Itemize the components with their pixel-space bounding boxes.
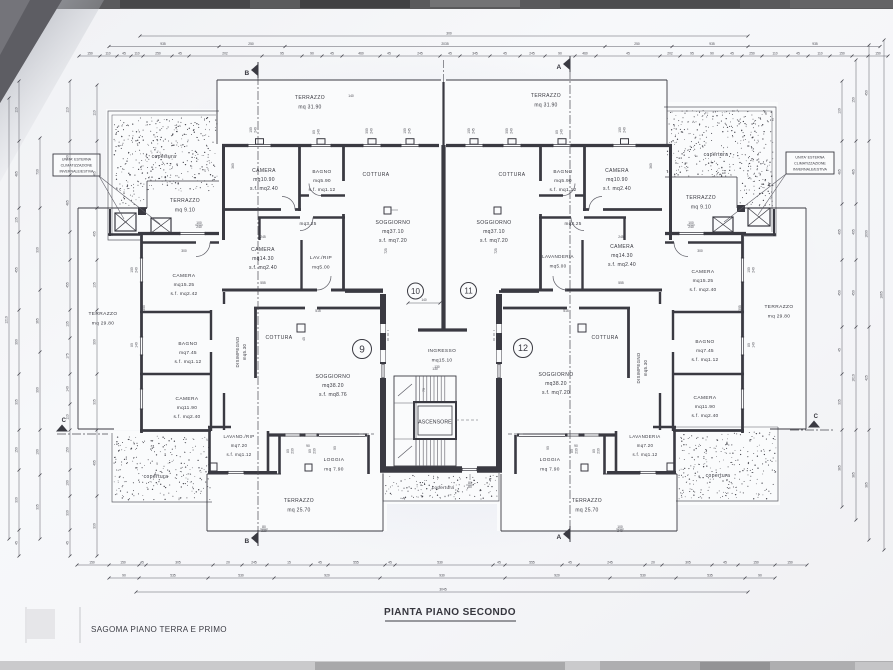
svg-text:150: 150 [120,561,126,565]
apartment number 12 [514,339,533,358]
wall camera/bagno divider (unit10) [298,147,301,211]
copertura stipple bottom-right [679,432,777,500]
svg-text:45: 45 [122,52,126,56]
svg-text:mq 25.70: mq 25.70 [575,508,598,514]
svg-text:CAMERA: CAMERA [173,273,196,279]
left dim line 4 [69,81,71,556]
stair treads lower flight [415,439,417,466]
svg-text:935: 935 [709,42,715,46]
section line C right [790,429,834,431]
svg-text:INGRESSO: INGRESSO [428,348,457,354]
svg-text:240: 240 [688,225,694,229]
svg-text:335: 335 [93,399,97,405]
svg-text:535: 535 [170,574,176,578]
svg-text:mq38.20: mq38.20 [545,381,567,387]
openings unit12 bottom [640,470,656,475]
svg-text:B: B [245,70,250,77]
staircase outline [394,376,456,466]
svg-text:460: 460 [582,52,588,56]
heater symbol loggia right [581,464,588,471]
right dim line 4 [883,40,885,550]
svg-text:11: 11 [464,286,473,295]
left exterior wall upper [222,144,225,240]
loggia walls right [603,435,606,474]
svg-text:80: 80 [286,449,290,453]
scanner corner wedge [0,0,104,182]
svg-text:725: 725 [384,248,388,254]
right wing east wall [741,232,744,433]
ac enclosure right [773,209,775,236]
svg-text:15: 15 [287,561,291,565]
lavanderia protrusion right [673,426,676,474]
svg-text:135: 135 [15,217,19,223]
svg-text:COTTURA: COTTURA [266,335,293,341]
unit9 corridor wall [223,292,225,304]
svg-text:s.f. mq1.12: s.f. mq1.12 [632,452,657,457]
svg-text:B: B [245,538,250,545]
svg-text:12: 12 [518,343,528,353]
heater symbol loggia left [305,464,312,471]
svg-text:330: 330 [93,523,97,529]
svg-text:515: 515 [315,309,321,313]
svg-text:mq 29.80: mq 29.80 [768,314,790,320]
svg-text:LAVANDERIA: LAVANDERIA [629,434,660,439]
svg-text:s.f. mq7.20: s.f. mq7.20 [542,390,570,396]
scanner grey band top [0,0,893,9]
svg-text:1610: 1610 [852,374,856,382]
terrazzo 9.10 left outline [147,180,219,182]
copertura stipple top-left [114,117,218,209]
svg-text:45: 45 [448,52,452,56]
svg-text:45: 45 [568,561,572,565]
svg-text:mq37.10: mq37.10 [382,229,404,235]
svg-text:250: 250 [749,52,755,56]
top dim line 1 [140,35,748,37]
unit12 wing dividers [672,311,744,313]
svg-text:DISIMPEGNO: DISIMPEGNO [235,336,240,367]
svg-text:80: 80 [747,343,751,347]
svg-text:DISIMPEGNO: DISIMPEGNO [636,352,641,383]
terrazzo 31.90 left outline [217,79,441,81]
copertura roof outline top-left [108,111,219,240]
svg-text:s.f. mq2.40: s.f. mq2.40 [250,186,278,192]
unit9 top wall [254,307,381,310]
svg-text:240: 240 [370,128,374,134]
svg-text:CLIMATIZZAZIONE: CLIMATIZZAZIONE [794,162,826,166]
heater symbol unit9 [297,324,305,332]
svg-text:mq7.45: mq7.45 [179,350,197,356]
svg-text:COTTURA: COTTURA [592,335,619,341]
svg-text:90: 90 [710,52,714,56]
terrazzo 31.90 right outline [446,79,667,81]
copertura roof outline top-right [664,107,776,236]
scanner grey band bottom [0,661,893,670]
svg-text:305: 305 [175,561,181,565]
windows east wall right wing [740,258,745,282]
svg-text:730: 730 [36,169,40,175]
party wall center, thin through terrace [442,82,444,147]
svg-text:240: 240 [752,267,756,273]
camera15.25 top wall right [665,241,743,244]
svg-text:ASCENSORE: ASCENSORE [418,420,452,426]
ac unit left outer [115,213,136,231]
svg-text:202: 202 [222,52,228,56]
svg-text:copertura: copertura [706,473,731,479]
unit12 corridor wall [659,292,661,304]
terrazzo 25.70 right outline [603,473,677,475]
svg-text:535: 535 [707,574,713,578]
svg-text:240: 240 [254,127,258,133]
svg-text:100: 100 [403,128,407,134]
exterior wall top (unit 11) [446,144,672,147]
left wing west wall [140,232,143,433]
terrazzo 29.80 right outline [744,207,806,209]
svg-text:mq 9.10: mq 9.10 [691,205,711,211]
stair treads upper flight [415,376,417,403]
svg-text:45: 45 [178,52,182,56]
wall bagno/cottura divider (unit10) [342,147,345,181]
svg-text:300: 300 [181,249,187,253]
svg-text:330: 330 [66,510,70,516]
svg-text:455: 455 [15,267,19,273]
svg-text:1865: 1865 [880,291,884,299]
svg-text:mq5.30: mq5.30 [242,344,247,361]
svg-text:mq37.10: mq37.10 [483,229,505,235]
svg-text:100: 100 [618,127,622,133]
unit9 bottom exterior wall [269,433,367,436]
svg-text:90: 90 [122,574,126,578]
svg-text:90: 90 [306,444,310,448]
svg-text:555: 555 [260,281,266,285]
svg-text:240: 240 [196,225,202,229]
svg-text:140: 140 [752,342,756,348]
svg-text:2035: 2035 [441,42,449,46]
door gaps interior [281,207,295,212]
svg-text:230: 230 [597,448,601,454]
svg-text:80: 80 [308,449,312,453]
svg-text:mq7.45: mq7.45 [696,348,714,354]
svg-text:300: 300 [505,128,509,134]
centerline dashes vertical center [443,60,445,82]
svg-text:C: C [814,414,819,420]
heater symbol unit11 [494,207,501,214]
windows top wall unit11 [465,143,483,148]
svg-text:240: 240 [510,128,514,134]
svg-text:mq5.90: mq5.90 [554,178,572,184]
svg-text:175: 175 [66,353,70,359]
svg-text:100: 100 [747,267,751,273]
svg-text:1600: 1600 [865,230,869,238]
svg-text:45: 45 [497,561,501,565]
svg-text:245: 245 [408,128,412,134]
ac enclosure left [109,209,111,236]
svg-text:s.f. mq1.12: s.f. mq1.12 [226,452,251,457]
svg-text:385: 385 [838,465,842,471]
svg-text:202: 202 [667,52,673,56]
svg-text:45: 45 [387,52,391,56]
svg-text:CAMERA: CAMERA [252,168,276,174]
svg-text:TERRAZZO: TERRAZZO [572,498,602,504]
svg-text:copertura: copertura [144,474,169,480]
svg-text:45: 45 [140,561,144,565]
svg-text:935: 935 [812,42,818,46]
svg-text:330: 330 [15,497,19,503]
left dim line 1 [8,98,10,539]
terrazzo 25.70 left outline [207,473,281,475]
svg-text:mq15.10: mq15.10 [432,358,453,364]
svg-text:530: 530 [238,574,244,578]
core left wall [380,294,386,468]
svg-text:920: 920 [554,574,560,578]
svg-text:300: 300 [446,32,452,36]
unit10 wall to core [345,290,383,293]
svg-text:mq 7.90: mq 7.90 [324,467,343,473]
svg-text:100: 100 [66,480,70,486]
windows west wall left wing [139,258,144,282]
svg-text:95: 95 [280,52,284,56]
svg-text:230: 230 [291,448,295,454]
svg-text:930: 930 [439,574,445,578]
svg-text:10: 10 [411,287,420,296]
party wall center [441,145,445,330]
svg-text:240: 240 [135,267,139,273]
svg-text:mq10.90: mq10.90 [606,177,628,183]
svg-text:245: 245 [472,128,476,134]
right wing bottom wall [673,429,744,432]
svg-text:mq14.30: mq14.30 [611,253,633,259]
svg-text:305: 305 [142,305,146,311]
svg-text:SOGGIORNO: SOGGIORNO [316,374,351,380]
building interior fill [217,80,667,147]
svg-text:TERRAZZO: TERRAZZO [686,195,716,201]
copertura roof outline bottom-right [676,427,778,501]
svg-text:80: 80 [312,130,316,134]
bottom dim line 2 [109,577,775,579]
svg-text:555: 555 [529,561,535,565]
svg-text:A: A [557,534,562,541]
svg-text:20: 20 [651,561,655,565]
svg-text:515: 515 [563,309,569,313]
svg-text:230: 230 [575,448,579,454]
svg-text:110: 110 [15,107,19,112]
svg-text:s.f. mq7.20: s.f. mq7.20 [480,238,508,244]
svg-text:385: 385 [852,472,856,478]
right exterior wall upper [669,144,672,240]
svg-text:LAV./RIP: LAV./RIP [310,255,332,261]
wall camera10.90 bottom (unit10) [222,208,301,211]
svg-text:mq7.20: mq7.20 [231,443,248,448]
svg-text:COTTURA: COTTURA [363,172,390,178]
svg-text:150: 150 [87,52,93,56]
svg-text:45: 45 [330,52,334,56]
svg-text:s.f. mq2.40: s.f. mq2.40 [173,414,200,420]
svg-text:UNITA' ESTERNA: UNITA' ESTERNA [795,156,825,160]
svg-text:45: 45 [15,541,19,545]
left dim line 5 [96,85,98,556]
svg-text:80: 80 [555,130,559,134]
elevator ASCENSORE [414,402,456,439]
leader lines left [99,176,124,219]
svg-text:20: 20 [226,561,230,565]
svg-text:725: 725 [494,248,498,254]
svg-text:45: 45 [503,52,507,56]
svg-text:245: 245 [417,52,423,56]
section line B [257,76,259,537]
svg-text:250: 250 [155,52,161,56]
unita esterna label left [53,154,100,176]
section line A [569,70,571,533]
svg-text:100: 100 [467,128,471,134]
apartment number 9 [353,340,372,359]
svg-text:mq 7.90: mq 7.90 [540,467,559,473]
svg-text:485: 485 [15,171,19,177]
copertura stipple bottom-left [114,436,211,501]
svg-text:360: 360 [231,163,235,169]
svg-text:mq38.20: mq38.20 [322,383,344,389]
svg-text:mq11.90: mq11.90 [177,405,197,411]
svg-text:mq7.20: mq7.20 [637,443,654,448]
svg-text:130: 130 [838,108,842,114]
svg-text:mq3.25: mq3.25 [299,221,316,226]
svg-text:COTTURA: COTTURA [499,172,526,178]
section line C left [57,433,108,435]
svg-text:45: 45 [796,52,800,56]
svg-text:45: 45 [838,348,842,352]
svg-text:s.f. mq2.40: s.f. mq2.40 [689,287,716,293]
unita esterna label right [786,152,834,174]
window terrazzo9.10 wall right [679,231,704,236]
copertura stipple bottom-center [383,473,499,501]
svg-text:450: 450 [852,290,856,296]
svg-text:mq 25.70: mq 25.70 [287,508,310,514]
svg-text:mq 9.10: mq 9.10 [175,208,195,214]
right dim line 2 [855,60,857,520]
svg-text:TERRAZZO: TERRAZZO [764,304,793,310]
svg-text:mq15.25: mq15.25 [693,278,714,284]
svg-text:mq 29.80: mq 29.80 [92,321,114,327]
svg-text:135: 135 [66,321,70,327]
svg-text:mq11.90: mq11.90 [695,404,715,410]
top dim line 3 [79,55,888,57]
svg-text:45: 45 [730,52,734,56]
ingresso top T-wall [418,328,467,331]
svg-text:150: 150 [66,447,70,453]
svg-text:130: 130 [432,367,438,371]
svg-text:mq5.90: mq5.90 [313,178,331,184]
svg-text:555: 555 [618,281,624,285]
svg-text:240: 240 [617,529,623,533]
loggia walls left [278,435,281,474]
unit11 wall to core [499,290,539,293]
svg-text:485: 485 [838,169,842,175]
svg-text:s.f. mq2.42: s.f. mq2.42 [170,291,197,297]
svg-text:s.f. mq2.40: s.f. mq2.40 [603,186,631,192]
svg-text:90: 90 [546,446,550,450]
svg-text:90: 90 [574,444,578,448]
svg-text:110: 110 [772,52,777,56]
heater symbol unit10 [384,207,391,214]
wall lav/rip left (unit10) [300,240,302,291]
svg-text:mq10.90: mq10.90 [253,177,275,183]
svg-text:140: 140 [135,342,139,348]
terrazzo 29.80 left outline [78,207,140,209]
svg-text:80: 80 [570,449,574,453]
camera15.25 top wall left [141,241,219,244]
svg-text:mq15.25: mq15.25 [174,282,195,288]
svg-text:405: 405 [93,231,97,237]
svg-text:s.f. mq1.12: s.f. mq1.12 [549,187,576,193]
svg-text:45: 45 [318,561,322,565]
svg-text:INVERNALE/ESTIVA: INVERNALE/ESTIVA [793,168,827,172]
svg-text:mq14.30: mq14.30 [252,256,274,262]
left dim line 2 [18,81,20,556]
svg-text:110: 110 [817,52,822,56]
copertura stipple top-right [667,110,774,207]
svg-text:390: 390 [15,339,19,345]
ac unit right inner [713,217,733,232]
svg-text:SOGGIORNO: SOGGIORNO [539,372,574,378]
lavanderia protrusion left [208,426,211,474]
window terrazzo9.10 wall left [180,231,205,236]
svg-text:530: 530 [640,574,646,578]
svg-text:LAVANDERIA: LAVANDERIA [542,254,574,259]
svg-text:385: 385 [865,482,869,488]
svg-text:s.f. mq1.12: s.f. mq1.12 [691,357,718,363]
svg-text:80: 80 [130,343,134,347]
svg-text:250: 250 [248,42,254,46]
svg-text:150: 150 [89,561,95,565]
svg-text:530: 530 [437,561,443,565]
svg-text:9: 9 [359,345,365,356]
svg-text:360: 360 [649,163,653,169]
svg-text:BAGNO: BAGNO [178,341,197,347]
svg-text:LOGGIA: LOGGIA [540,457,561,463]
svg-text:485: 485 [93,171,97,177]
windows top wall unit10 [248,143,271,148]
svg-text:110: 110 [93,110,97,115]
openings unit9 bottom [228,470,244,475]
unit9 wing dividers [140,311,212,313]
svg-text:s.f. mq2.40: s.f. mq2.40 [608,262,636,268]
svg-text:150: 150 [787,561,793,565]
svg-text:920: 920 [324,574,330,578]
svg-text:140: 140 [421,298,427,302]
svg-text:95: 95 [690,52,694,56]
svg-text:150: 150 [753,561,759,565]
svg-text:CAMERA: CAMERA [610,244,634,250]
core bottom window [462,466,477,473]
svg-text:460: 460 [358,52,364,56]
wall camera14.30/lav divider (unit10) [342,214,345,291]
core windows [379,364,387,378]
svg-text:110: 110 [66,414,70,419]
svg-text:TERRAZZO: TERRAZZO [295,95,325,101]
svg-text:TERRAZZO: TERRAZZO [284,498,314,504]
svg-text:TERRAZZO: TERRAZZO [531,93,561,99]
door swing arcs interior [282,197,295,210]
svg-text:100: 100 [130,267,134,273]
svg-text:150: 150 [839,52,845,56]
svg-text:INVERNALE/ESTIVA: INVERNALE/ESTIVA [60,170,94,174]
svg-text:BAGNO: BAGNO [695,339,714,345]
unit12 bottom exterior wall [517,433,615,436]
svg-text:mq3.25: mq3.25 [564,221,581,226]
svg-text:330: 330 [36,247,40,253]
unit12 top wall [503,307,630,310]
svg-text:230: 230 [313,448,317,454]
svg-text:335: 335 [36,504,40,510]
svg-text:335: 335 [15,399,19,405]
